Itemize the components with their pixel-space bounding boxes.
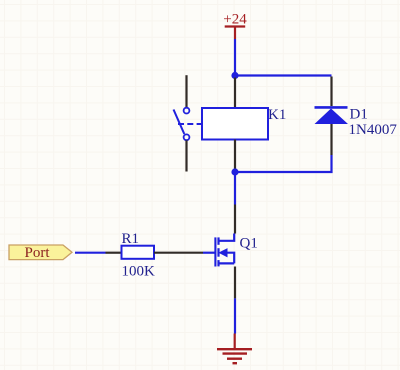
node B junction dot: [231, 168, 238, 175]
svg-text:R1: R1: [122, 231, 140, 247]
relay K1 coil box: [202, 108, 268, 140]
transistor Q1 drain pin: [234, 205, 236, 234]
label D1: [350, 106, 368, 122]
relay actuator dashed link: [178, 123, 202, 125]
resistor R1 left pin: [106, 252, 122, 254]
svg-text:D1: D1: [350, 106, 368, 122]
wire Port to R1: [75, 252, 106, 254]
diode D1 bottom pin: [330, 124, 332, 155]
node A junction dot: [231, 72, 238, 79]
diode D1 body: [315, 107, 349, 124]
power +24 label: [223, 12, 247, 28]
relay contact blade: [174, 110, 185, 135]
svg-text:100K: 100K: [122, 264, 156, 280]
label R1: [122, 231, 140, 247]
relay contact bottom terminal circle: [184, 134, 190, 140]
wire node A to diode top: [235, 74, 332, 76]
label K1: [268, 107, 286, 123]
ground symbol: [217, 334, 252, 364]
svg-text:+24: +24: [223, 12, 247, 28]
transistor Q1 mosfet body: [215, 234, 234, 267]
transistor Q1 gate lead: [203, 252, 215, 254]
diode D1 top pin: [330, 77, 332, 107]
wire node B to Q1 drain: [234, 172, 236, 205]
relay K1 bottom pin: [234, 140, 236, 171]
relay K1 top pin: [234, 78, 236, 109]
port Port: [9, 245, 72, 261]
wire from +24 to node A: [234, 39, 236, 76]
label 100K: [122, 264, 156, 280]
wire diode bottom to node B: [235, 155, 332, 172]
resistor R1 right pin: [154, 252, 203, 254]
power +24 bar symbol: [225, 27, 246, 40]
label Q1: [240, 236, 258, 252]
relay contact bottom pin: [185, 140, 187, 171]
relay contact top terminal circle: [184, 108, 190, 114]
svg-text:K1: K1: [268, 107, 286, 123]
resistor R1 body: [122, 246, 155, 259]
svg-text:Q1: Q1: [240, 236, 258, 252]
svg-text:Port: Port: [24, 245, 50, 261]
transistor Q1 source pin: [234, 267, 236, 299]
relay contact top pin: [185, 75, 187, 107]
svg-text:1N4007: 1N4007: [349, 122, 398, 138]
label 1N4007: [349, 122, 398, 138]
wire Q1 source to ground: [234, 298, 236, 333]
